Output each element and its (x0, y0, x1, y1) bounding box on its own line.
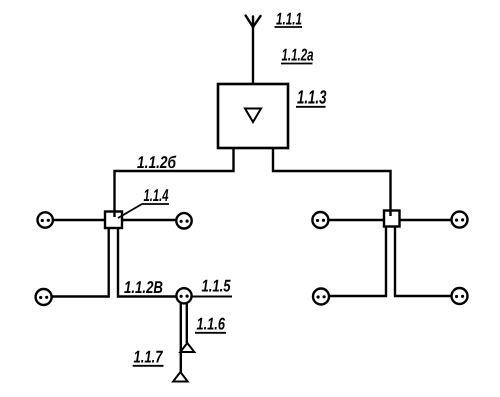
wire feed stub into right splitter (389, 211, 391, 217)
wire right splitter to top-left outlet (329, 219, 385, 221)
wire riser right pair (329, 227, 452, 297)
terminator (1.1.6) (180, 343, 194, 352)
svg-text:1.1.1: 1.1.1 (276, 10, 302, 29)
ground (1.1.7) (173, 372, 188, 382)
outlet X7 bottom-left (313, 289, 329, 305)
label 1.1.4 with leader (118, 186, 169, 218)
wire left branch (115, 148, 234, 212)
label 1.1.5 with underline wire (192, 277, 233, 297)
label 1.1.3 (296, 88, 327, 109)
label 1.1.2a (281, 46, 314, 65)
wire feed stub into left splitter (113, 212, 115, 218)
label 1.1.7 (133, 348, 164, 367)
amplifier U1 (218, 84, 288, 148)
wire riser left pair (52, 228, 177, 297)
wire right splitter to top-right outlet (400, 219, 452, 221)
outlet X2 (176, 213, 191, 228)
svg-text:1.1.2б: 1.1.2б (137, 153, 176, 172)
wire riser below 1.1.5 (181, 303, 187, 373)
wire splitter to top-right outlet (122, 219, 177, 221)
antenna W1 (246, 16, 261, 28)
splitter A2 right (384, 211, 400, 227)
svg-text:1.1.7: 1.1.7 (134, 348, 164, 367)
svg-text:1.1.2а: 1.1.2а (282, 46, 314, 65)
outlet X3 bottom-left (36, 289, 52, 305)
svg-text:1.1.3: 1.1.3 (297, 88, 327, 109)
svg-text:1.1.4: 1.1.4 (144, 186, 169, 205)
outlet X1 top-left (38, 212, 53, 227)
outlet X6 (452, 212, 468, 228)
outlet X8 bottom-right (452, 288, 468, 304)
svg-text:1.1.6: 1.1.6 (197, 315, 226, 334)
wire right branch (273, 148, 391, 211)
splitter A1 (1.1.4) (105, 212, 122, 229)
label 1.1.6 (195, 315, 226, 334)
wire antenna feed (252, 27, 254, 84)
wire splitter to top-left outlet (53, 219, 105, 221)
label 1.1.1 (275, 10, 303, 29)
svg-text:1.1.5: 1.1.5 (202, 277, 231, 296)
outlet X5 (312, 212, 328, 228)
outlet X4 (1.1.5 through outlet) (176, 288, 191, 303)
svg-text:1.1.2В: 1.1.2В (124, 278, 163, 297)
